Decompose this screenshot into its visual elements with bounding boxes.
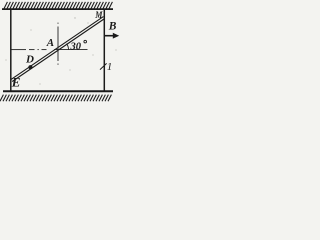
ceiling hatching (4, 2, 112, 9)
svg-text:E: E (11, 75, 21, 90)
svg-text:M: M (94, 11, 103, 21)
rod EM (double line) (11, 17, 105, 82)
floor line (3, 90, 113, 92)
vertical centre line (57, 23, 59, 65)
svg-text:A: A (46, 37, 54, 49)
scan specks (5, 17, 116, 84)
svg-text:B: B (108, 20, 117, 32)
svg-text:D: D (25, 54, 34, 66)
arrow B (105, 35, 114, 37)
ceiling line (2, 8, 113, 10)
svg-text:30: 30 (70, 41, 82, 52)
angle arc 30deg (67, 44, 69, 50)
horizontal centre line (dash-dot) (12, 49, 88, 51)
frame left side (10, 10, 12, 92)
floor hatching (0, 95, 111, 102)
svg-text:1: 1 (107, 61, 113, 73)
leader to label 1 (100, 63, 107, 69)
frame right side (103, 10, 105, 92)
bead D on rod (28, 65, 32, 69)
